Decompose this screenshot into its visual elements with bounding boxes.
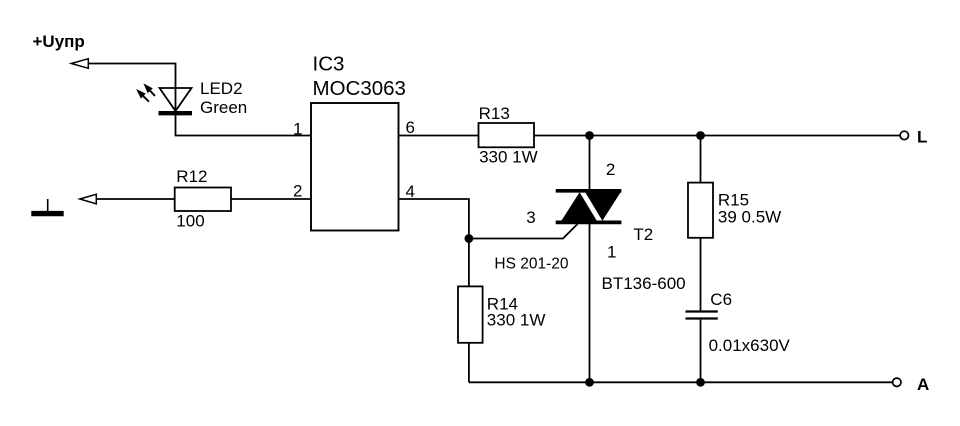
wire R14 to bottom rail: [468, 343, 470, 383]
svg-text:330 1W: 330 1W: [487, 311, 546, 330]
resistor R14: [458, 286, 545, 342]
svg-text:1: 1: [607, 242, 616, 261]
wire bottom rail: [469, 381, 893, 383]
junction top R15: [696, 131, 705, 140]
svg-text:1: 1: [293, 120, 302, 139]
LED LED2: [137, 84, 192, 113]
svg-text:330 1W: 330 1W: [479, 148, 538, 167]
svg-text:MOC3063: MOC3063: [313, 77, 406, 100]
svg-text:R13: R13: [479, 104, 510, 123]
svg-text:R12: R12: [176, 167, 207, 186]
wire arrow to R12: [96, 198, 174, 200]
node gate junction: [465, 234, 474, 243]
wire R12 to pin2: [231, 198, 311, 200]
svg-text:Green: Green: [200, 98, 247, 117]
wire gate: [469, 224, 578, 239]
wire pin4: [399, 199, 469, 239]
svg-text:2: 2: [606, 160, 615, 179]
resistor R15: [688, 183, 781, 238]
resistor R13: [479, 104, 538, 167]
svg-text:BT136-600: BT136-600: [602, 274, 686, 293]
svg-text:L: L: [917, 128, 927, 147]
svg-text:2: 2: [293, 182, 302, 201]
wire R15 top: [700, 136, 702, 183]
wire control top: [88, 64, 176, 112]
capacitor C6: [686, 290, 791, 355]
svg-text:IC3: IC3: [313, 52, 345, 75]
svg-text:C6: C6: [710, 290, 732, 309]
op-amp IC3 MOC3063 box: [311, 52, 406, 230]
arrowhead control bottom: [80, 194, 97, 204]
svg-text:T2: T2: [633, 225, 653, 244]
wire gate to R14: [468, 239, 470, 287]
svg-text:100: 100: [176, 211, 204, 230]
terminal A: [893, 375, 930, 394]
ground: [31, 199, 63, 214]
svg-text:39 0.5W: 39 0.5W: [718, 208, 781, 227]
svg-text:3: 3: [526, 208, 535, 227]
resistor R12: [175, 167, 231, 230]
svg-text:LED2: LED2: [200, 79, 243, 98]
svg-text:0.01x630V: 0.01x630V: [709, 336, 791, 355]
svg-text:A: A: [917, 375, 929, 394]
terminal L: [900, 128, 927, 147]
arrowhead control top: [71, 59, 88, 69]
junction top triac: [585, 131, 594, 140]
svg-text:6: 6: [406, 118, 415, 137]
wire C6 bottom: [700, 320, 702, 383]
wire top rail: [534, 135, 900, 137]
junction bottom triac: [585, 378, 594, 387]
svg-text:+Uупр: +Uупр: [33, 32, 85, 51]
triac T2: [556, 136, 622, 383]
svg-text:HS 201-20: HS 201-20: [494, 255, 568, 272]
wire R15 to C6: [700, 238, 702, 311]
junction bottom C6: [696, 378, 705, 387]
wire pin6 to R13: [399, 135, 479, 137]
wire LED to pin1: [176, 111, 312, 136]
